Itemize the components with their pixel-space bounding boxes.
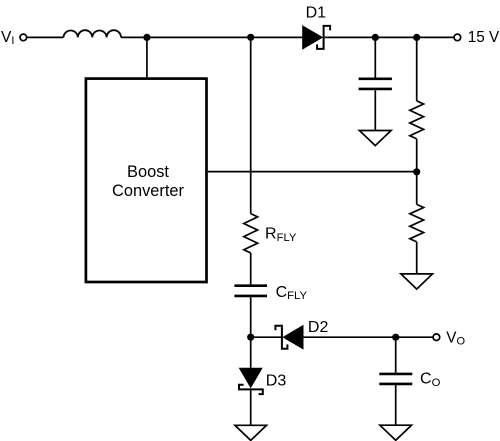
wire top junction down to RFLY xyxy=(250,37,252,213)
node 15V output terminal xyxy=(454,34,461,41)
svg-text:D3: D3 xyxy=(266,373,287,390)
ground D3 xyxy=(235,425,267,440)
diode D2 schottky cathode bar xyxy=(275,326,287,349)
diode D3 schottky cathode bar xyxy=(239,385,263,394)
wire 15V rail down to C1 xyxy=(374,37,376,77)
wire junction down to boost converter xyxy=(146,37,148,77)
diode D1 schottky cathode bar xyxy=(317,26,330,49)
wire D2 node down to D3 xyxy=(250,337,252,368)
wire VO node down to CO xyxy=(395,337,397,373)
node VI input terminal xyxy=(20,34,27,41)
wire inductor to D1 anode xyxy=(121,36,302,38)
svg-text:Converter: Converter xyxy=(112,182,185,200)
ground C1 xyxy=(359,131,391,146)
capacitor C1 xyxy=(359,78,392,81)
wire R2 to ground xyxy=(416,242,418,274)
capacitor CO xyxy=(379,373,412,376)
wire D3 to ground xyxy=(250,389,252,425)
svg-text:Boost: Boost xyxy=(127,163,169,181)
wire D1 cathode to 15V terminal xyxy=(325,36,455,38)
junction node at inductor/boost-converter xyxy=(143,34,150,41)
junction node at R1 xyxy=(413,34,420,41)
wire boost converter output to feedback node xyxy=(208,171,417,173)
junction node at flying branch xyxy=(247,34,254,41)
inductor L1 xyxy=(64,30,122,37)
diode D3 triangle xyxy=(239,368,263,389)
resistor R1 upper divider xyxy=(410,101,424,139)
wire D2 node to D2 cathode xyxy=(251,336,282,338)
diode D2 triangle xyxy=(282,325,303,350)
svg-text:D1: D1 xyxy=(306,5,327,22)
svg-text:D2: D2 xyxy=(308,319,329,336)
wire terminal to inductor xyxy=(27,36,64,38)
capacitor CFLY xyxy=(234,284,267,287)
op-amp-block boost converter box U1 xyxy=(86,79,207,282)
ground CO xyxy=(380,425,412,440)
wire CFLY to D2 node xyxy=(250,297,252,337)
wire C1 to ground xyxy=(374,90,376,130)
wire RFLY to CFLY xyxy=(250,253,252,284)
resistor R2 lower divider xyxy=(410,204,424,242)
ground divider xyxy=(401,274,433,289)
resistor RFLY xyxy=(244,214,258,253)
wire D2 anode to VO terminal xyxy=(304,336,434,338)
junction node feedback divider xyxy=(413,168,420,175)
wire R1 to feedback node xyxy=(416,139,418,205)
junction node at C1 xyxy=(372,34,379,41)
diode D1 triangle xyxy=(302,25,323,50)
wire 15V rail down to R1 xyxy=(416,37,418,100)
junction node CO xyxy=(392,334,399,341)
wire CO to ground xyxy=(395,385,397,425)
svg-text:15 V: 15 V xyxy=(468,29,500,46)
junction node CFLY/D2/D3 xyxy=(247,334,254,341)
node VO output terminal xyxy=(433,334,440,341)
